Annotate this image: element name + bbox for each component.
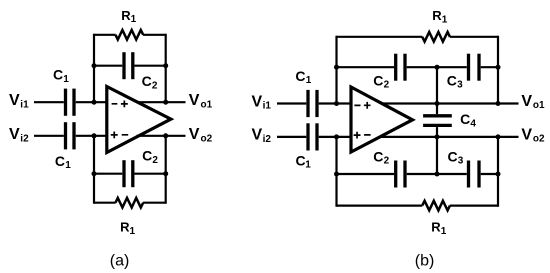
svg-text:V: V (252, 127, 263, 144)
node dot b input 1 (334, 101, 339, 106)
label Vo1 (189, 92, 213, 110)
label C4 (460, 111, 476, 129)
wire middle vertical (b top) (436, 67, 438, 103)
svg-text:V: V (9, 126, 20, 143)
svg-text:1: 1 (442, 14, 448, 25)
capacitor C3 (b top feedback) (469, 54, 499, 81)
wire left vertical (top half) (93, 34, 95, 103)
capacitor C2 (top feedback) (94, 52, 166, 79)
label Vi1 (b) (252, 93, 272, 111)
svg-text:C: C (142, 148, 152, 164)
node dot input 1 (92, 100, 97, 105)
svg-text:C: C (295, 68, 305, 84)
svg-text:1: 1 (131, 14, 137, 25)
svg-text:C: C (142, 73, 152, 89)
svg-text:i2: i2 (263, 134, 272, 145)
node dot left C2 rail top (92, 63, 97, 68)
svg-text:2: 2 (152, 155, 158, 166)
label R1 (top) (121, 8, 136, 25)
node dot b mid out 1 (435, 101, 440, 106)
capacitor C2 (b top feedback) (337, 54, 467, 81)
node dot b right out 1 (496, 101, 501, 106)
capacitor C3 (b bottom feedback) (469, 161, 499, 188)
wire output Vo2 (b) (381, 136, 519, 138)
wire right vertical (top half) (165, 34, 167, 103)
label C2 (b bottom) (373, 148, 389, 166)
svg-text:C: C (448, 148, 458, 164)
svg-text:V: V (9, 92, 20, 109)
node dot b mid out 2 (435, 134, 440, 139)
svg-text:(b): (b) (415, 253, 435, 270)
label C1 (bottom) (55, 153, 71, 171)
label R1 (b top) (432, 8, 447, 25)
op-amp U2 (351, 87, 413, 152)
label Vi2 (9, 126, 29, 144)
wire output Vo1 (137, 101, 186, 103)
op-amp U1 (107, 87, 171, 153)
svg-text:o1: o1 (533, 100, 545, 111)
capacitor C1 (b top input) (277, 90, 351, 117)
svg-text:1: 1 (305, 159, 311, 170)
svg-text:1: 1 (306, 75, 312, 86)
node dot b mid C rail top (435, 65, 440, 70)
svg-text:1: 1 (63, 74, 69, 85)
wire left vertical (bottom half) (93, 136, 95, 204)
label Vo2 (b) (521, 126, 545, 144)
label C1 (b top) (295, 68, 311, 86)
svg-text:3: 3 (457, 80, 463, 91)
svg-text:V: V (252, 93, 263, 110)
capacitor C1 (top input) (34, 89, 107, 116)
label Vi2 (b) (252, 127, 272, 145)
resistor R1 (b top feedback) (337, 32, 499, 42)
label C1 (b bottom) (296, 152, 312, 170)
capacitor C2 (b bottom feedback) (337, 161, 467, 188)
label C3 (b bottom) (448, 148, 464, 166)
node dot b input 2 (334, 134, 339, 139)
wire output Vo2 (137, 135, 186, 137)
capacitor C1 (b bottom input) (277, 123, 351, 150)
node dot input 2 (92, 133, 97, 138)
svg-text:V: V (189, 126, 200, 143)
resistor R1 (bottom feedback) (94, 198, 166, 208)
label C2 (bottom) (142, 148, 158, 166)
capacitor C1 (bottom input) (34, 122, 107, 149)
wire middle vertical (b bottom) (436, 137, 438, 174)
node dot b mid C rail bottom (435, 172, 440, 177)
svg-text:o2: o2 (533, 133, 545, 144)
wire right vertical (b top) (497, 36, 499, 104)
svg-text:C: C (447, 72, 457, 88)
node dot right C2 rail top (163, 63, 168, 68)
svg-text:i2: i2 (20, 134, 29, 145)
svg-text:C: C (373, 148, 383, 164)
label C2 (top) (142, 73, 158, 91)
capacitor C2 (bottom feedback) (94, 160, 166, 187)
svg-text:1: 1 (130, 226, 136, 237)
wire right vertical (b bottom) (497, 137, 499, 207)
svg-text:1: 1 (441, 226, 447, 237)
label R1 (b bottom) (431, 220, 446, 237)
label C2 (b top) (373, 72, 389, 90)
svg-text:o2: o2 (201, 134, 213, 145)
svg-text:1: 1 (65, 160, 71, 171)
svg-text:i1: i1 (20, 100, 29, 111)
label Vo2 (189, 126, 213, 144)
svg-text:2: 2 (152, 80, 158, 91)
node dot b right C rail bottom (496, 172, 501, 177)
node dot b left C rail bottom (334, 172, 339, 177)
svg-text:2: 2 (384, 156, 390, 167)
svg-text:2: 2 (384, 80, 390, 91)
svg-text:V: V (521, 93, 532, 110)
node dot b right C rail top (496, 65, 501, 70)
svg-text:4: 4 (470, 118, 476, 129)
svg-text:C: C (55, 153, 65, 169)
wire left vertical (b top) (335, 36, 337, 104)
resistor R1 (top feedback) (94, 30, 166, 40)
node dot left C2 rail bottom (92, 171, 97, 176)
svg-text:i1: i1 (263, 100, 272, 111)
svg-text:3: 3 (458, 156, 464, 167)
wire right vertical (bottom half) (165, 136, 167, 204)
label Vi1 (9, 92, 29, 110)
svg-text:C: C (53, 67, 63, 83)
node dot b left C rail top (334, 65, 339, 70)
label C3 (b top) (447, 72, 463, 90)
wire output Vo1 (b) (381, 102, 519, 104)
svg-text:(a): (a) (110, 253, 130, 270)
node dot output 2 (163, 133, 168, 138)
svg-text:C: C (296, 152, 306, 168)
svg-text:V: V (189, 92, 200, 109)
node dot output 1 (163, 100, 168, 105)
resistor R1 (b bottom feedback) (337, 201, 499, 211)
capacitor C4 (bridge) (423, 104, 452, 137)
node dot right C2 rail bottom (163, 171, 168, 176)
label R1 (bottom) (120, 220, 135, 237)
svg-text:o1: o1 (201, 100, 213, 111)
wire left vertical (b bottom) (335, 137, 337, 207)
node dot b right out 2 (496, 134, 501, 139)
svg-text:C: C (373, 72, 383, 88)
svg-text:V: V (521, 126, 532, 143)
label C1 (top) (53, 67, 69, 85)
svg-text:C: C (460, 111, 470, 127)
label Vo1 (b) (521, 93, 545, 111)
